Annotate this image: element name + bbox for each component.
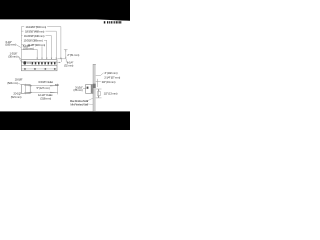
svg-text:(524 mm): (524 mm) (7, 81, 18, 85)
svg-text:16-15/16″ (430 mm): 16-15/16″ (430 mm) (24, 34, 45, 38)
svg-text:(165 mm): (165 mm) (5, 42, 16, 46)
svg-text:Min Finished Wall: Min Finished Wall (70, 102, 88, 106)
svg-text:1/2″ (13 mm): 1/2″ (13 mm) (104, 91, 118, 95)
svg-text:6-5/16″ Outlet: 6-5/16″ Outlet (38, 80, 53, 84)
svg-text:2″ (51 mm): 2″ (51 mm) (67, 53, 79, 57)
svg-text:(318 mm): (318 mm) (40, 96, 51, 100)
svg-text:15-3/16″ (386 mm): 15-3/16″ (386 mm) (24, 39, 43, 43)
svg-text:4″ (102 mm): 4″ (102 mm) (104, 71, 117, 75)
svg-text:2-1/4″ (57 mm): 2-1/4″ (57 mm) (104, 75, 120, 79)
svg-text:(205 mm): (205 mm) (23, 47, 34, 51)
svg-text:18-3/16″ (468 mm): 18-3/16″ (468 mm) (25, 30, 44, 34)
svg-text:(78 mm): (78 mm) (73, 88, 82, 92)
svg-text:(521 mm): (521 mm) (11, 95, 22, 99)
svg-text:(32 mm): (32 mm) (64, 64, 73, 68)
svg-text:3/4″ (19 mm): 3/4″ (19 mm) (102, 80, 116, 84)
svg-text:5″ (127 mm): 5″ (127 mm) (36, 86, 49, 90)
svg-text:19-13/16″ (503 mm): 19-13/16″ (503 mm) (26, 25, 47, 29)
svg-text:(30 mm): (30 mm) (8, 54, 17, 58)
